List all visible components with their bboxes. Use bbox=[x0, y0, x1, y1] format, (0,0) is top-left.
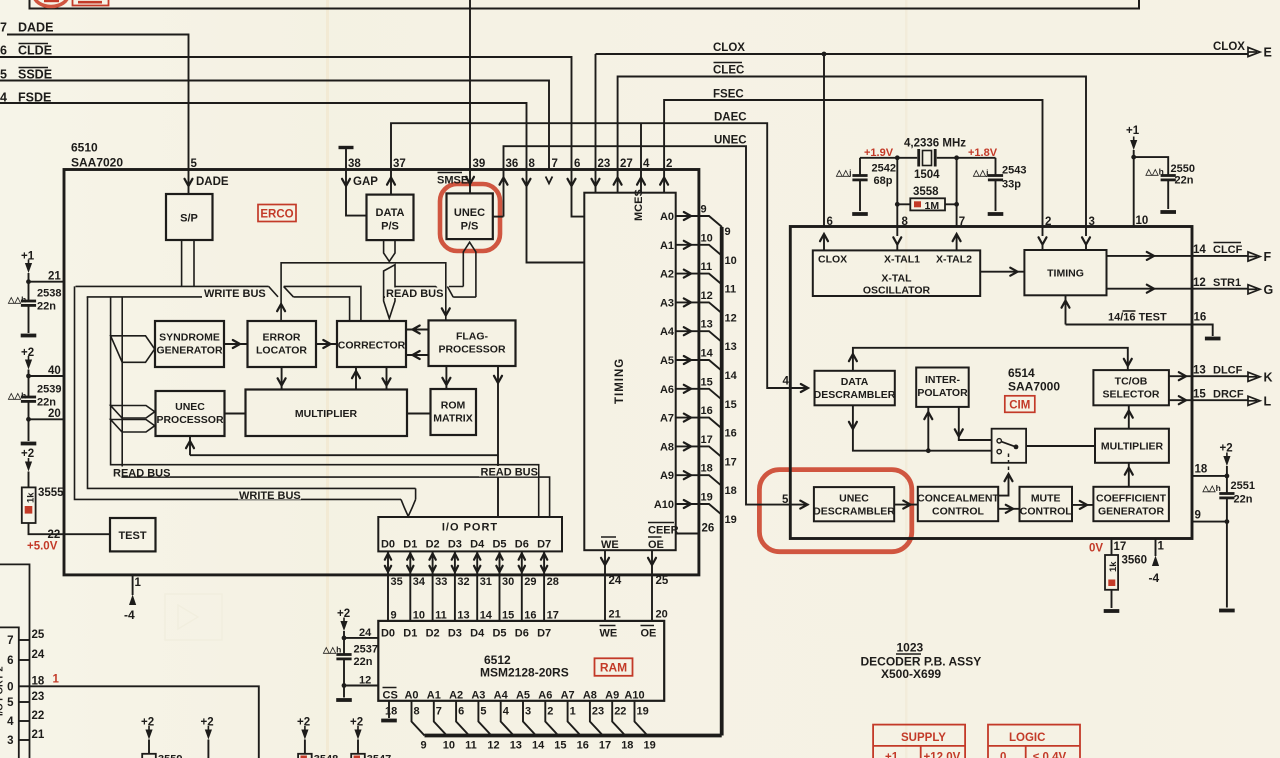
svg-text:S/P: S/P bbox=[180, 213, 198, 225]
wire DATA DESCRAMBLER to TC/OB SELECTOR bbox=[849, 348, 1132, 371]
svg-text:22: 22 bbox=[614, 706, 626, 718]
faint fold line bbox=[326, 0, 329, 758]
svg-text:SAA7000: SAA7000 bbox=[1008, 380, 1060, 394]
wire RAM A7 (pin 1) to bus bbox=[568, 701, 589, 752]
svg-text:GAP: GAP bbox=[353, 176, 378, 188]
left block pin 18 stub bbox=[7, 675, 45, 693]
svg-text:+2: +2 bbox=[21, 347, 34, 359]
svg-text:6: 6 bbox=[574, 158, 580, 170]
LOGIC table (red, cut) bbox=[988, 725, 1080, 758]
svg-text:WRITE BUS: WRITE BUS bbox=[239, 490, 301, 502]
svg-text:15: 15 bbox=[725, 399, 737, 411]
svg-text:2: 2 bbox=[666, 158, 672, 170]
svg-text:+12.0V: +12.0V bbox=[924, 752, 961, 758]
svg-text:1M: 1M bbox=[925, 200, 940, 212]
svg-text:8: 8 bbox=[902, 216, 909, 228]
svg-text:△△j: △△j bbox=[972, 168, 988, 178]
svg-text:D2: D2 bbox=[426, 628, 440, 640]
svg-text:22n: 22n bbox=[354, 656, 373, 668]
svg-text:DESCRAMBLER: DESCRAMBLER bbox=[813, 506, 895, 518]
pin 4 arrow up bbox=[637, 178, 645, 185]
svg-text:19: 19 bbox=[644, 740, 656, 752]
svg-text:+1: +1 bbox=[1126, 125, 1140, 137]
svg-text:A1: A1 bbox=[660, 240, 674, 252]
svg-text:36: 36 bbox=[506, 158, 519, 170]
svg-text:2550: 2550 bbox=[1171, 163, 1195, 175]
arrow CONCEALMENT to MUTE CONTROL bbox=[998, 505, 1019, 513]
capacitor 2542 68p bbox=[835, 158, 896, 214]
SAA7000 pin 7 (X-TAL2) bbox=[953, 216, 966, 250]
svg-text:MULTIPLIER: MULTIPLIER bbox=[1101, 441, 1164, 453]
svg-text:+1.8V: +1.8V bbox=[968, 147, 998, 159]
svg-text:A4: A4 bbox=[494, 690, 509, 702]
svg-text:18: 18 bbox=[701, 463, 713, 475]
UNEC DESCRAMBLER block bbox=[813, 487, 895, 521]
svg-text:1023: 1023 bbox=[897, 641, 924, 655]
svg-text:CLOX: CLOX bbox=[713, 42, 745, 54]
svg-text:7: 7 bbox=[552, 158, 558, 170]
wire DLCF output pin 13 to K bbox=[1169, 365, 1273, 385]
svg-text:25: 25 bbox=[0, 68, 7, 82]
svg-text:CS: CS bbox=[383, 690, 398, 702]
wire DADE to pin 5 bbox=[7, 35, 189, 194]
svg-text:G: G bbox=[1264, 283, 1274, 297]
wire RAM A8 (pin 23) to bus bbox=[590, 701, 611, 752]
write bus chevron into I/O PORT bbox=[401, 488, 416, 516]
svg-text:A5: A5 bbox=[660, 355, 674, 367]
svg-text:SSDE: SSDE bbox=[18, 68, 52, 82]
svg-text:SUPPLY: SUPPLY bbox=[901, 732, 946, 744]
svg-text:16: 16 bbox=[701, 405, 713, 417]
svg-text:D3: D3 bbox=[448, 628, 462, 640]
svg-text:A3: A3 bbox=[660, 297, 674, 309]
svg-text:31: 31 bbox=[480, 576, 492, 588]
svg-text:D5: D5 bbox=[492, 628, 506, 640]
svg-text:22n: 22n bbox=[37, 301, 56, 313]
arrows FLAG-PROCESSOR to CORRECTOR (two) bbox=[406, 326, 429, 334]
wire 14/16 TEST pin 16 to ground bbox=[1062, 295, 1221, 338]
svg-text:CLOX: CLOX bbox=[1213, 41, 1245, 53]
svg-text:WRITE BUS: WRITE BUS bbox=[204, 288, 266, 300]
svg-text:SELECTOR: SELECTOR bbox=[1103, 389, 1160, 401]
RAM pin label OE bbox=[641, 626, 657, 640]
CIM red label bbox=[1005, 396, 1035, 413]
svg-text:-4: -4 bbox=[124, 608, 135, 622]
svg-text:2538: 2538 bbox=[37, 288, 61, 300]
SAA7000 pin 3 bbox=[1082, 216, 1095, 250]
svg-text:14: 14 bbox=[532, 740, 545, 752]
supply +2 with capacitor 2551 22n (pins 18/9) bbox=[1192, 443, 1255, 611]
MULTIPLIER block bbox=[246, 390, 408, 437]
svg-text:COEFFICIENT: COEFFICIENT bbox=[1096, 493, 1167, 505]
wire SMSE from top to UNEC P/S bbox=[469, 0, 471, 193]
svg-text:4: 4 bbox=[643, 158, 650, 170]
arrow ERROR LOCATOR to CORRECTOR bbox=[316, 340, 337, 348]
svg-text:2543: 2543 bbox=[1002, 165, 1026, 177]
wire CLOX bus bbox=[596, 41, 1249, 193]
svg-text:10: 10 bbox=[701, 232, 713, 244]
svg-text:4: 4 bbox=[7, 716, 14, 728]
svg-text:CIM: CIM bbox=[1009, 400, 1030, 412]
svg-text:0: 0 bbox=[1000, 752, 1006, 758]
svg-text:ERCO: ERCO bbox=[260, 209, 293, 221]
svg-text:READ BUS: READ BUS bbox=[386, 288, 443, 300]
svg-text:A9: A9 bbox=[660, 470, 674, 482]
DATA P/S block bbox=[367, 195, 414, 241]
svg-text:15: 15 bbox=[701, 376, 713, 388]
svg-text:SMSE: SMSE bbox=[437, 175, 468, 187]
svg-text:△△h: △△h bbox=[7, 391, 26, 401]
capacitor 2538 22n bbox=[7, 251, 64, 336]
wire D0 I/O PORT to RAM (pins 35/9) bbox=[385, 551, 403, 621]
wire UNEC PROCESSOR to MULTIPLIER bbox=[225, 413, 246, 415]
wire FSDE to pin 8 then TIMING bbox=[0, 103, 584, 263]
svg-text:10: 10 bbox=[1136, 215, 1149, 227]
wire S/P outputs to write bus bbox=[182, 240, 194, 286]
red ellipse highlight (cut) bbox=[34, 0, 68, 7]
RAM 6512 block bbox=[378, 621, 664, 701]
svg-text:8: 8 bbox=[529, 158, 536, 170]
svg-text:LOGIC: LOGIC bbox=[1009, 732, 1045, 744]
wire UNEC PROCESSOR up-arrow joining flag riser bbox=[186, 436, 498, 455]
svg-text:9: 9 bbox=[725, 226, 731, 238]
resistor 3558 1M bbox=[895, 158, 959, 227]
wire RAM CS to ground (pin 18) bbox=[381, 701, 397, 721]
svg-text:PROCESSOR: PROCESSOR bbox=[156, 414, 224, 426]
svg-text:14/16 TEST: 14/16 TEST bbox=[1108, 312, 1167, 324]
wire RAM A1 (pin 7) to bus bbox=[434, 701, 455, 752]
write bus channel left/bottom run bbox=[75, 286, 416, 499]
READ BUS label (middle) bbox=[385, 288, 445, 299]
wire net 1 from pin 18 down to edge bbox=[30, 686, 259, 758]
svg-text:D5: D5 bbox=[492, 539, 506, 551]
wire RAM A6 (pin 2) to bus bbox=[545, 701, 566, 752]
svg-text:CEER: CEER bbox=[648, 525, 679, 537]
output arrow E bbox=[1248, 46, 1272, 60]
svg-text:12: 12 bbox=[701, 290, 713, 302]
svg-text:CONTROL: CONTROL bbox=[932, 506, 984, 518]
wire +5.0V rail to TEST (pin 22) bbox=[29, 523, 111, 534]
FLAG-PROCESSOR block bbox=[429, 320, 516, 366]
arrow MULTIPLIER up to TC/OB SELECTOR bbox=[1125, 405, 1133, 428]
svg-text:1: 1 bbox=[570, 706, 576, 718]
svg-text:5: 5 bbox=[191, 158, 198, 170]
wire D4 I/O PORT to RAM (pins 31/14) bbox=[474, 551, 493, 621]
svg-text:18: 18 bbox=[725, 485, 737, 497]
svg-text:A0: A0 bbox=[660, 211, 674, 223]
svg-text:A7: A7 bbox=[660, 413, 674, 425]
DATA P/S bus exit pentagon bbox=[384, 240, 395, 261]
svg-text:0: 0 bbox=[7, 681, 13, 693]
SAA7000 block outline bbox=[790, 227, 1192, 539]
svg-text:26: 26 bbox=[0, 44, 7, 58]
wire RAM A3 (pin 5) to bus bbox=[478, 701, 499, 752]
svg-text:3547: 3547 bbox=[367, 754, 391, 758]
SAA7020 block outline bbox=[64, 170, 699, 575]
TIMING internal OE label bbox=[648, 537, 664, 551]
svg-text:FLAG-: FLAG- bbox=[456, 331, 489, 343]
wire D1 I/O PORT to RAM (pins 34/10) bbox=[407, 551, 426, 621]
svg-text:40: 40 bbox=[48, 365, 61, 377]
svg-text:3: 3 bbox=[1089, 216, 1095, 228]
svg-text:39: 39 bbox=[473, 158, 486, 170]
ERCO red label bbox=[258, 205, 296, 222]
arrow ERROR LOCATOR down to MULTIPLIER bbox=[278, 367, 286, 390]
svg-text:LOCATOR: LOCATOR bbox=[256, 345, 307, 357]
svg-text:5: 5 bbox=[7, 697, 14, 709]
pin 5 DADE arrow bbox=[185, 176, 229, 188]
svg-text:11: 11 bbox=[465, 740, 477, 752]
svg-text:CORRECTOR: CORRECTOR bbox=[338, 340, 406, 352]
wire ERROR LOCATOR riser to write bus / FLAG-PROCESSOR feed bbox=[277, 263, 450, 321]
svg-text:UNEC: UNEC bbox=[714, 135, 747, 147]
svg-text:D7: D7 bbox=[537, 628, 551, 640]
SYNDROME GENERATOR block bbox=[155, 321, 224, 367]
svg-text:29: 29 bbox=[524, 576, 536, 588]
wire pin 4 tap on DAEC bbox=[640, 123, 642, 193]
wire A1 (SAA7020 pin 10) to address bus bbox=[660, 232, 737, 266]
svg-text:3559: 3559 bbox=[158, 754, 182, 758]
svg-text:20: 20 bbox=[656, 609, 668, 621]
svg-text:TIMING: TIMING bbox=[1047, 268, 1084, 280]
svg-text:UNEC: UNEC bbox=[454, 207, 485, 219]
svg-text:D4: D4 bbox=[470, 539, 485, 551]
svg-text:6514: 6514 bbox=[1008, 366, 1035, 380]
SAA7000 pin 2 bbox=[1039, 216, 1052, 250]
svg-text:△△j: △△j bbox=[835, 168, 851, 178]
left device block edges (cut) bbox=[0, 564, 30, 758]
wire D6 I/O PORT to RAM (pins 29/16) bbox=[519, 551, 537, 621]
wire A5 (SAA7020 pin 14) to address bus bbox=[660, 348, 738, 383]
svg-text:18: 18 bbox=[385, 706, 397, 718]
svg-text:P/S: P/S bbox=[381, 221, 399, 233]
svg-text:A9: A9 bbox=[605, 690, 619, 702]
svg-text:22n: 22n bbox=[37, 397, 56, 409]
wire A6 (SAA7020 pin 15) to address bus bbox=[660, 376, 737, 411]
svg-text:6: 6 bbox=[7, 655, 13, 667]
svg-text:P/S: P/S bbox=[461, 221, 479, 233]
wire A0 (SAA7020 pin 9) to address bus bbox=[660, 204, 731, 239]
READ BUS label (left) bbox=[112, 467, 170, 477]
wire switch to MULTIPLIER bbox=[1026, 445, 1095, 447]
svg-text:13: 13 bbox=[701, 319, 713, 331]
svg-text:35: 35 bbox=[391, 576, 403, 588]
svg-text:△△h: △△h bbox=[322, 645, 341, 655]
svg-text:L: L bbox=[1264, 395, 1272, 409]
svg-text:2537: 2537 bbox=[354, 644, 378, 656]
svg-text:3: 3 bbox=[7, 735, 13, 747]
svg-text:MCES: MCES bbox=[633, 189, 645, 221]
supply +2 stub (component cut) bbox=[201, 717, 214, 758]
svg-text:18: 18 bbox=[621, 740, 633, 752]
pin label 27 DADE bbox=[0, 21, 53, 35]
red highlight ring around UNEC DESCRAMBLER bbox=[759, 470, 911, 552]
SAA7000 pin 8 (X-TAL1) bbox=[893, 216, 908, 250]
svg-text:13: 13 bbox=[1193, 365, 1206, 377]
svg-text:I/O PORT: I/O PORT bbox=[442, 522, 498, 534]
arrow COEFFICIENT GENERATOR up to MULTIPLIER bbox=[1125, 463, 1133, 487]
UNEC PROCESSOR block bbox=[156, 391, 225, 436]
svg-text:15: 15 bbox=[1193, 389, 1206, 401]
svg-text:CLOX: CLOX bbox=[818, 254, 847, 266]
capacitor 2539 22n bbox=[7, 347, 64, 444]
svg-text:MSM2128-20RS: MSM2128-20RS bbox=[480, 666, 569, 680]
wire RAM A2 (pin 6) to bus bbox=[456, 701, 477, 752]
svg-text:+2: +2 bbox=[350, 717, 363, 729]
switch control wire from CONCEALMENT CONTROL bbox=[998, 474, 1012, 496]
resistor 3548 (cut) bbox=[297, 717, 338, 758]
pin label 24 FSDE bbox=[0, 91, 51, 105]
svg-text:21: 21 bbox=[609, 609, 621, 621]
svg-text:MUTE: MUTE bbox=[1031, 493, 1061, 505]
svg-text:K: K bbox=[1264, 371, 1273, 385]
svg-text:24: 24 bbox=[32, 649, 45, 661]
svg-text:34: 34 bbox=[413, 576, 426, 588]
svg-text:2542: 2542 bbox=[872, 163, 896, 175]
svg-text:A6: A6 bbox=[538, 690, 552, 702]
svg-text:14: 14 bbox=[701, 348, 714, 360]
label 6514 SAA7000 bbox=[1008, 366, 1060, 394]
SUPPLY table (red, cut) bbox=[873, 725, 965, 758]
svg-text:13: 13 bbox=[725, 341, 737, 353]
svg-text:D6: D6 bbox=[515, 539, 529, 551]
arrow SYNDROME to ERROR LOCATOR bbox=[224, 340, 248, 348]
svg-text:△△h: △△h bbox=[1145, 167, 1164, 177]
SAA7000 pin 6 (CLOX) bbox=[820, 216, 833, 250]
wire D7 I/O PORT to RAM (pins 28/17) bbox=[541, 551, 559, 621]
svg-text:21: 21 bbox=[32, 729, 45, 741]
svg-text:D0: D0 bbox=[381, 539, 395, 551]
svg-text:READ BUS: READ BUS bbox=[481, 467, 538, 479]
DATA DESCRAMBLER block bbox=[814, 371, 896, 406]
svg-text:15: 15 bbox=[502, 610, 514, 622]
svg-text:22: 22 bbox=[48, 529, 61, 541]
svg-text:A2: A2 bbox=[449, 690, 463, 702]
svg-text:12: 12 bbox=[487, 740, 499, 752]
svg-text:FSEC: FSEC bbox=[713, 89, 744, 101]
svg-text:+1: +1 bbox=[885, 752, 899, 758]
wire OE TIMING to RAM (pins 25/20) bbox=[648, 550, 669, 621]
svg-text:DATA: DATA bbox=[376, 207, 405, 219]
svg-text:22: 22 bbox=[32, 710, 45, 722]
address bus vertical bbox=[720, 227, 724, 736]
wire A7 (SAA7020 pin 16) to address bus bbox=[660, 405, 737, 440]
svg-text:30: 30 bbox=[502, 576, 514, 588]
svg-text:D3: D3 bbox=[448, 539, 462, 551]
svg-text:1504: 1504 bbox=[914, 169, 940, 181]
svg-text:10: 10 bbox=[725, 255, 737, 267]
svg-text:MATRIX: MATRIX bbox=[433, 413, 472, 425]
svg-text:A10: A10 bbox=[654, 499, 674, 511]
svg-text:PROCESSOR: PROCESSOR bbox=[438, 344, 506, 356]
TC/OB SELECTOR block bbox=[1093, 370, 1169, 405]
svg-text:19: 19 bbox=[725, 514, 737, 526]
svg-text:D7: D7 bbox=[537, 539, 551, 551]
pin label 25 SSDE bbox=[0, 68, 52, 82]
X-TAL OSCILLATOR block bbox=[813, 250, 980, 296]
SAA7020 pin 1 to -4 supply bbox=[124, 575, 142, 622]
svg-text:D2: D2 bbox=[426, 539, 440, 551]
wire FSEC bus (pin 2 to SAA7000 pin 2) bbox=[664, 89, 1042, 227]
wire A4 (SAA7020 pin 13) to address bus bbox=[660, 319, 737, 354]
TEST block bbox=[110, 518, 156, 551]
arrow UNEC into UNEC DESCRAMBLER bbox=[800, 501, 807, 509]
svg-text:37: 37 bbox=[393, 158, 406, 170]
MULTIPLIER block (SAA7000) bbox=[1095, 429, 1169, 463]
svg-text:WE: WE bbox=[601, 539, 619, 551]
svg-text:READ BUS: READ BUS bbox=[113, 468, 170, 480]
resistor 3547 (cut) bbox=[350, 717, 391, 758]
svg-text:I/O PORT 2: I/O PORT 2 bbox=[0, 666, 6, 716]
crystal node wire +1.9V/+1.8V bbox=[860, 147, 998, 160]
svg-text:POLATOR: POLATOR bbox=[917, 387, 968, 399]
svg-text:12: 12 bbox=[359, 675, 371, 687]
arrow up into INTERPOLATOR bbox=[924, 407, 932, 451]
svg-text:OE: OE bbox=[648, 539, 664, 551]
svg-text:18: 18 bbox=[1195, 464, 1208, 476]
wire INTERPOLATOR right pin to switch bbox=[955, 407, 992, 440]
svg-text:A8: A8 bbox=[583, 690, 597, 702]
TIMING internal CEER label bbox=[648, 523, 679, 537]
bus chevron into SYNDROME GENERATOR bbox=[111, 336, 155, 363]
WRITE BUS label (bottom) bbox=[238, 490, 301, 500]
svg-text:2: 2 bbox=[1045, 216, 1051, 228]
wire A8 (SAA7020 pin 17) to address bus bbox=[660, 434, 737, 469]
svg-text:9: 9 bbox=[391, 610, 397, 622]
TIMING internal WE label bbox=[601, 537, 619, 551]
svg-text:CLEC: CLEC bbox=[713, 65, 744, 77]
svg-text:DATA: DATA bbox=[841, 376, 869, 388]
svg-text:DESCRAMBLER: DESCRAMBLER bbox=[814, 389, 896, 401]
wire D2 I/O PORT to RAM (pins 33/11) bbox=[429, 551, 447, 621]
svg-text:38: 38 bbox=[348, 158, 361, 170]
resistor 3555 1k bbox=[21, 448, 64, 523]
svg-text:6: 6 bbox=[458, 706, 464, 718]
svg-text:7: 7 bbox=[959, 216, 965, 228]
svg-text:5: 5 bbox=[782, 494, 789, 506]
svg-text:SAA7020: SAA7020 bbox=[71, 156, 123, 170]
svg-text:DRCF: DRCF bbox=[1213, 389, 1244, 401]
svg-text:1: 1 bbox=[1158, 541, 1165, 553]
svg-text:A2: A2 bbox=[660, 269, 674, 281]
wire FLAG-PROCESSOR output down to I/O PORT bbox=[494, 366, 502, 517]
svg-text:7: 7 bbox=[436, 706, 442, 718]
svg-text:9: 9 bbox=[421, 740, 427, 752]
svg-text:24: 24 bbox=[609, 575, 622, 587]
RAM red label bbox=[595, 658, 633, 676]
svg-text:≤ 0.4V: ≤ 0.4V bbox=[1033, 752, 1066, 758]
svg-text:14: 14 bbox=[480, 610, 493, 622]
svg-text:D6: D6 bbox=[515, 628, 529, 640]
svg-text:14: 14 bbox=[1193, 244, 1206, 256]
svg-text:X-TAL1: X-TAL1 bbox=[884, 254, 920, 266]
svg-text:25: 25 bbox=[656, 575, 669, 587]
svg-text:2539: 2539 bbox=[37, 384, 61, 396]
svg-text:17: 17 bbox=[725, 456, 737, 468]
assembly label 1023 DECODER P.B. ASSY bbox=[861, 641, 982, 682]
svg-text:A8: A8 bbox=[660, 441, 674, 453]
svg-text:4: 4 bbox=[783, 376, 790, 388]
arrow MULTIPLIER up to CORRECTOR bbox=[352, 367, 360, 390]
svg-text:A6: A6 bbox=[660, 384, 674, 396]
wire CLCF output pin 14 to F bbox=[1107, 243, 1272, 265]
svg-text:RAM: RAM bbox=[600, 661, 627, 675]
svg-text:D0: D0 bbox=[381, 628, 395, 640]
svg-text:3558: 3558 bbox=[913, 186, 939, 198]
capacitor 2543 33p bbox=[972, 158, 1026, 214]
svg-text:CLCF: CLCF bbox=[1213, 244, 1243, 256]
pin label 26 CLDE bbox=[0, 44, 52, 58]
